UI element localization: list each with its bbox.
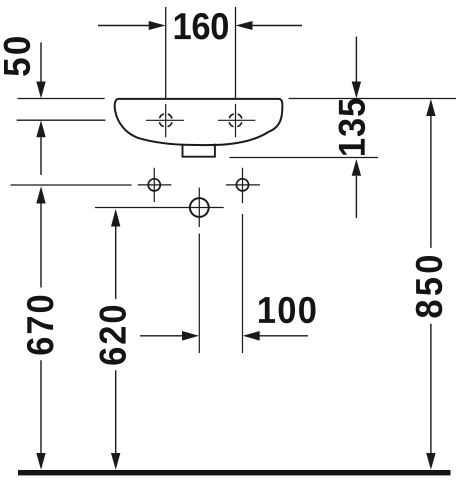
- dim 670: label (rotated): [27, 296, 54, 355]
- dim 160: right arrow: [252, 25, 303, 27]
- floor line: [18, 470, 451, 475]
- supply connection left: crosshair: [138, 168, 172, 202]
- supply connection right: crosshair: [226, 168, 260, 203]
- rim reference line left: [18, 98, 105, 100]
- siphon / drain trap: [183, 144, 215, 157]
- faucet hole left crosshair: [146, 104, 184, 137]
- dim 100: left arrow line: [140, 335, 183, 337]
- supply connection left: circle: [148, 179, 160, 191]
- faucet level reference line (left of basin): [17, 119, 106, 121]
- dim 850: lower line with down arrow at floor: [430, 324, 432, 453]
- dim 620: label (rotated): [99, 306, 126, 365]
- dim 160: extension line right: [235, 7, 237, 99]
- dim 50: lower up-arrow with tail: [36, 120, 45, 137]
- extension line below right supply circle: [242, 214, 244, 353]
- dim 850: upper line with up arrow at rim line: [426, 99, 435, 116]
- dim 670: lower line with down arrow at floor: [40, 360, 42, 453]
- dim 135: upper line with down arrow: [355, 37, 357, 82]
- rim reference line right: [289, 98, 456, 100]
- dim 620: lower line with down arrow at floor: [115, 370, 117, 453]
- dim 160: label: [175, 13, 228, 40]
- dim 620: up arrow at drain line: [111, 209, 120, 227]
- drain level reference line left (through big circle): [95, 207, 224, 209]
- dim 850: label (rotated): [416, 256, 443, 317]
- drain connection: vertical crosshair: [198, 188, 200, 227]
- dim 135: lower line with up arrow: [352, 159, 361, 176]
- faucet hole left (dashed circle): [159, 114, 172, 127]
- dim 160: extension line left: [165, 7, 167, 99]
- drain connection: circle: [190, 198, 209, 217]
- dim 50: upper line with down arrow: [40, 42, 42, 81]
- dim 100: right arrow line: [243, 331, 260, 341]
- supply connection right: circle: [236, 179, 248, 191]
- dim 135: label (rotated): [339, 99, 366, 155]
- extension line below drain circle: [198, 234, 200, 354]
- dim 670: up arrow at supply line: [36, 186, 45, 203]
- dim 50: label (rotated): [4, 37, 31, 76]
- faucet hole right (dashed circle): [229, 114, 242, 127]
- dim 160: left arrow: [98, 25, 150, 27]
- washbasin outline: [115, 99, 283, 145]
- drain level reference line right: [230, 157, 379, 159]
- faucet hole right crosshair: [218, 104, 255, 137]
- supply level reference line (through small circles): [11, 184, 132, 186]
- dim 100: label: [259, 297, 316, 324]
